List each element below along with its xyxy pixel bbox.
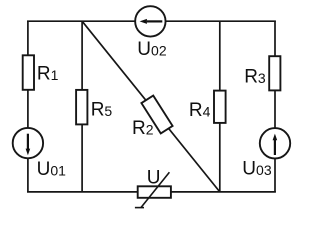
wire diagonal branch R2 (82, 21, 220, 192)
varistor U (138, 186, 171, 198)
svg-text:R3: R3 (244, 66, 266, 87)
resistor R2 (141, 96, 172, 134)
source U02 (135, 6, 165, 36)
source U01 (13, 128, 43, 158)
resistor R3 (269, 56, 280, 90)
svg-text:U02: U02 (137, 39, 167, 60)
resistor R4 (214, 91, 226, 123)
wire bottom horizontal (27, 191, 276, 193)
wire top horizontal (27, 20, 276, 22)
svg-text:U01: U01 (37, 159, 67, 180)
wire branch R5 vertical (81, 21, 83, 192)
svg-text:U03: U03 (242, 158, 272, 179)
resistor R1 (23, 55, 34, 90)
resistor R5 (76, 90, 87, 125)
svg-text:R4: R4 (189, 100, 211, 121)
svg-text:R2: R2 (132, 118, 154, 139)
svg-text:R1: R1 (37, 63, 59, 84)
svg-text:U: U (147, 167, 161, 188)
wire right vertical (274, 21, 276, 192)
source U03 (260, 128, 290, 158)
svg-text:R5: R5 (91, 100, 113, 121)
wire left vertical (27, 21, 29, 192)
wire branch R4 vertical (219, 21, 221, 192)
